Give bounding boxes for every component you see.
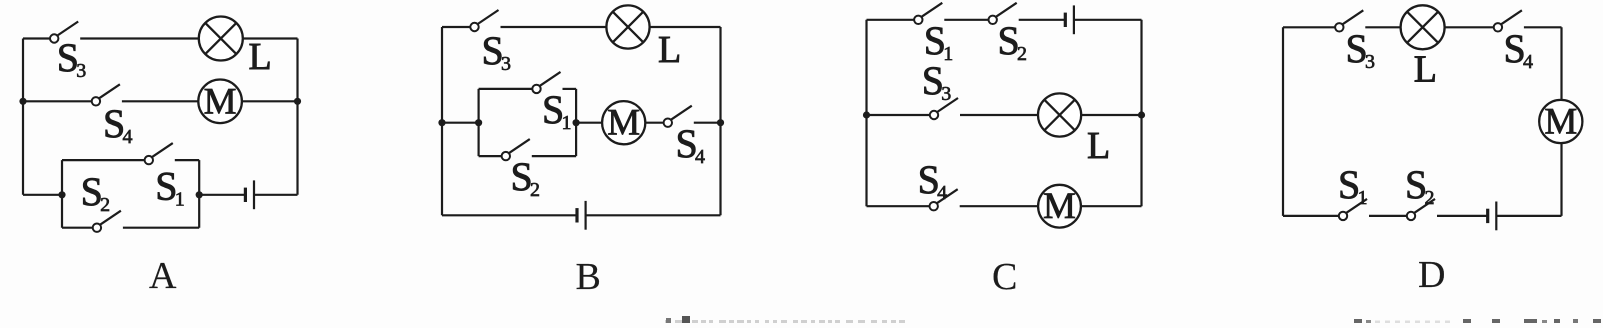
svg-text:D: D xyxy=(1418,254,1445,296)
svg-text:1: 1 xyxy=(1358,187,1368,209)
svg-text:L: L xyxy=(1414,49,1437,91)
svg-text:3: 3 xyxy=(76,60,86,82)
svg-text:2: 2 xyxy=(100,194,110,216)
svg-text:1: 1 xyxy=(943,43,953,65)
svg-text:2: 2 xyxy=(1425,187,1435,209)
svg-text:4: 4 xyxy=(695,146,705,168)
svg-text:3: 3 xyxy=(941,83,951,105)
svg-text:L: L xyxy=(1087,125,1110,167)
svg-text:1: 1 xyxy=(175,189,185,211)
svg-text:M: M xyxy=(204,81,237,122)
svg-text:4: 4 xyxy=(937,182,947,204)
svg-text:3: 3 xyxy=(501,53,511,75)
svg-text:M: M xyxy=(1544,102,1577,143)
svg-text:4: 4 xyxy=(1523,51,1533,73)
svg-text:3: 3 xyxy=(1365,51,1375,73)
svg-text:L: L xyxy=(249,36,272,78)
svg-text:C: C xyxy=(992,256,1017,298)
svg-text:M: M xyxy=(1043,186,1076,227)
svg-text:A: A xyxy=(149,255,177,297)
svg-text:L: L xyxy=(658,29,681,71)
svg-text:2: 2 xyxy=(530,179,540,201)
svg-text:M: M xyxy=(607,103,640,144)
svg-text:4: 4 xyxy=(123,126,133,148)
svg-text:B: B xyxy=(576,256,601,298)
svg-text:2: 2 xyxy=(1017,43,1027,65)
svg-text:1: 1 xyxy=(562,112,572,134)
